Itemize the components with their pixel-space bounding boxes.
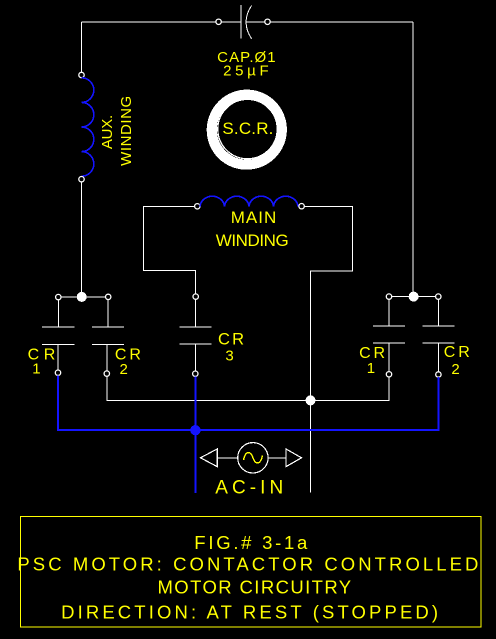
- wire left vertical: [81, 22, 83, 72]
- node CR2 left bottom terminal: [104, 371, 109, 376]
- arrow left (AC): [201, 449, 218, 467]
- S.C.R. circle U1: [207, 91, 285, 169]
- junction white bus: [306, 395, 316, 405]
- svg-text:S.C.R.: S.C.R.: [222, 119, 273, 138]
- wire white bus CR2L to CR1R: [107, 376, 389, 400]
- node CR2 left top terminal: [106, 294, 111, 299]
- inductor MAIN WINDING: [200, 196, 298, 206]
- node CR3 bottom terminal: [193, 371, 198, 376]
- wire blue bus CR1L to CR2R: [58, 375, 438, 430]
- junction left CR group: [77, 292, 87, 302]
- node CR3 top terminal: [193, 294, 198, 299]
- contactor CR1 (right): [373, 299, 405, 371]
- wire blue CR3 drop: [194, 376, 196, 430]
- svg-text:PSC MOTOR: CONTACTOR CONTROLLE: PSC MOTOR: CONTACTOR CONTROLLED: [17, 554, 478, 575]
- capacitor CAP.01: [216, 5, 270, 39]
- wire main winding right leg: [304, 206, 352, 398]
- svg-text:WINDING: WINDING: [216, 231, 289, 250]
- wire arrow left to source: [217, 457, 238, 459]
- wire source to arrow right: [268, 457, 286, 459]
- contactor CR2 (left): [92, 300, 124, 371]
- node CR1 right bottom terminal: [386, 372, 391, 377]
- AC source V1: [238, 443, 268, 473]
- node main winding left terminal: [195, 204, 200, 209]
- wire right vertical from top: [412, 22, 414, 292]
- wire blue drop below junction: [194, 430, 196, 493]
- node aux winding bottom terminal: [79, 177, 84, 182]
- svg-text:MAIN: MAIN: [231, 208, 277, 227]
- node CR1 right top terminal: [386, 294, 391, 299]
- svg-text:AUX.: AUX.: [99, 115, 116, 149]
- contactor CR2 (right): [422, 299, 454, 372]
- wire aux to left junction: [81, 182, 83, 294]
- wire left CR top bar: [58, 296, 108, 298]
- title box frame: [21, 517, 482, 628]
- svg-text:2: 2: [120, 361, 128, 378]
- wire white drop below junction: [310, 400, 312, 492]
- arrow right (AC): [286, 449, 302, 467]
- junction right CR group: [409, 292, 419, 302]
- node main winding right terminal: [299, 204, 304, 209]
- svg-text:1: 1: [367, 360, 375, 377]
- node CR1 left top terminal: [56, 294, 61, 299]
- svg-text:3: 3: [225, 348, 233, 365]
- contactor CR1 (left): [42, 300, 74, 370]
- junction blue bus: [190, 425, 200, 435]
- svg-text:WINDING: WINDING: [118, 96, 135, 166]
- node CR1 left bottom terminal: [55, 370, 60, 375]
- svg-text:1: 1: [32, 361, 40, 378]
- svg-text:AC-IN: AC-IN: [215, 478, 283, 499]
- wire main winding left leg to CR3: [143, 206, 195, 294]
- svg-text:2: 2: [451, 361, 459, 378]
- node CR2 right top terminal: [436, 294, 441, 299]
- wire top-left horizontal: [82, 21, 216, 23]
- wire top-right horizontal: [270, 21, 413, 23]
- node aux winding top terminal: [79, 72, 84, 77]
- svg-text:MOTOR CIRCUITRY: MOTOR CIRCUITRY: [158, 577, 352, 598]
- node CR2 right bottom terminal: [436, 372, 441, 377]
- inductor AUX WINDING: [82, 78, 94, 176]
- wire right CR top bar: [389, 296, 438, 298]
- contactor CR3: [180, 299, 212, 371]
- svg-text:FIG.# 3-1a: FIG.# 3-1a: [194, 532, 308, 553]
